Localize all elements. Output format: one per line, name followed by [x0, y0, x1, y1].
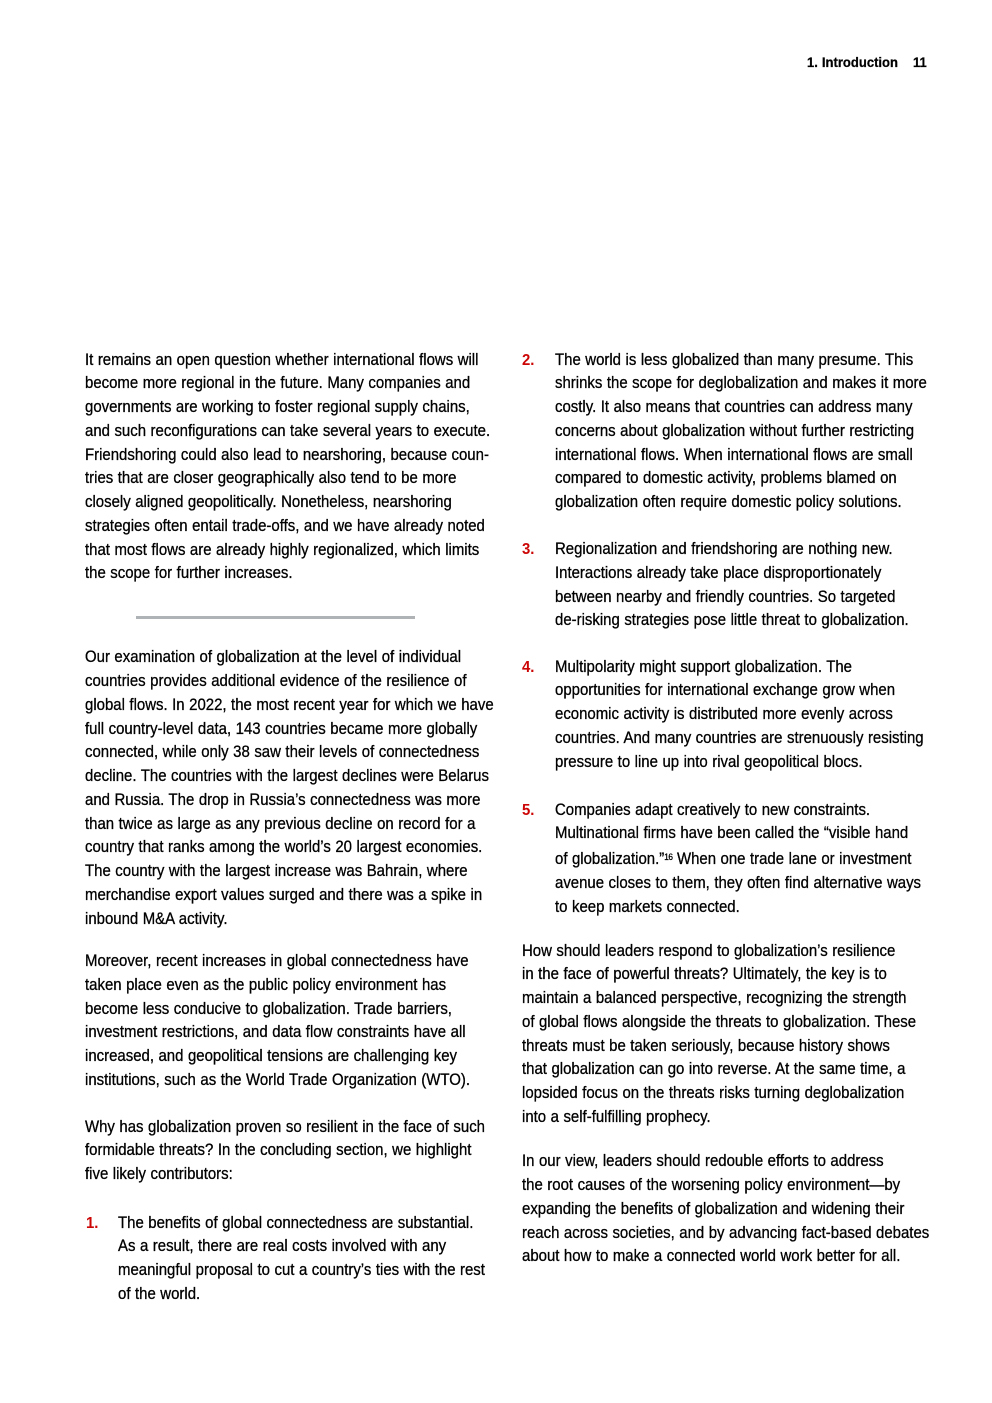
list item 5 number	[522, 799, 534, 823]
right column paragraph 2	[522, 1150, 929, 1269]
list item 2 number	[522, 349, 534, 373]
list item 1 number	[86, 1212, 98, 1236]
list item 4 text	[555, 656, 924, 775]
list item 1 text	[118, 1212, 485, 1307]
list item 4 number	[522, 656, 534, 680]
list item 3 number	[522, 538, 534, 562]
divider rule	[136, 616, 415, 619]
left column paragraph 3	[85, 950, 470, 1093]
left column paragraph 4	[85, 1116, 485, 1187]
list item 5 text	[555, 799, 921, 920]
list item 2 text	[555, 349, 927, 515]
left column paragraph 1	[85, 349, 490, 587]
page header	[807, 51, 898, 75]
right column paragraph 1	[522, 940, 916, 1130]
left column paragraph 2	[85, 646, 494, 931]
list item 3 text	[555, 538, 909, 633]
